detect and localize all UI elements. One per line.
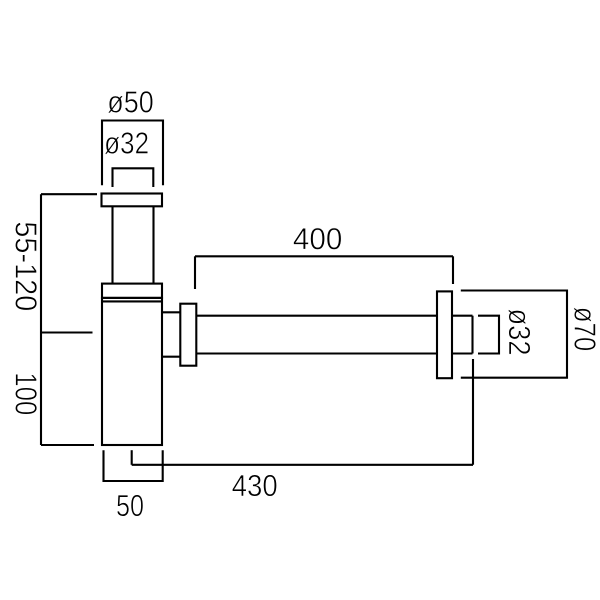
left dim mid tick <box>41 331 93 333</box>
dim bracket o32 right <box>478 316 499 354</box>
label 55-120 <box>15 222 37 310</box>
left dimension line <box>40 194 42 445</box>
dim bracket o50 <box>102 121 163 186</box>
left dim bottom extension <box>41 444 94 446</box>
tailpiece tube <box>111 206 113 283</box>
label o70 <box>574 307 596 350</box>
wall flange <box>437 291 452 378</box>
horizontal waste pipe <box>196 315 437 317</box>
label 100 <box>15 374 37 414</box>
dim line 430 <box>132 464 473 466</box>
label 430 <box>232 475 276 497</box>
body top nut <box>102 284 162 298</box>
label o32 right <box>508 309 530 354</box>
label o50 <box>108 91 153 113</box>
dim bracket o32 top <box>113 168 154 187</box>
label 50 <box>117 495 143 517</box>
dim line 400 <box>195 255 453 257</box>
dim box o70 <box>461 291 567 378</box>
outlet boss <box>162 311 180 313</box>
outlet collar nut <box>180 304 196 366</box>
wall pipe stub <box>452 315 473 317</box>
left dim top extension <box>41 193 97 195</box>
label 400 <box>294 228 342 250</box>
flange (top escutcheon) <box>102 194 163 207</box>
dim bracket 50 <box>104 450 163 481</box>
body seam line <box>102 300 162 302</box>
label o32 top <box>105 132 148 154</box>
trap body <box>102 298 162 445</box>
